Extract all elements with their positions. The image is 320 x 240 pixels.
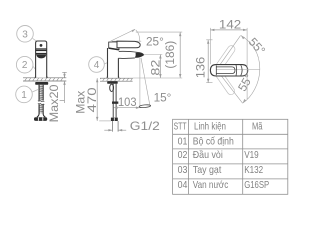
svg-text:Bộ cố định: Bộ cố định xyxy=(193,135,234,147)
ghost lever rotated down 55deg xyxy=(215,70,236,96)
wedge dark bottom edge xyxy=(109,48,119,50)
body/lever boundary line xyxy=(215,65,217,75)
body base flare (side) xyxy=(107,76,119,78)
(186) dimension line xyxy=(179,32,181,78)
handle dark band xyxy=(36,49,47,51)
svg-text:136: 136 xyxy=(193,56,207,78)
leader line circle 3 xyxy=(33,38,37,41)
svg-text:04: 04 xyxy=(178,180,188,191)
svg-text:Linh kiện: Linh kiện xyxy=(194,122,226,133)
countertop deck (side view) with hatch xyxy=(98,76,134,82)
table row lines xyxy=(173,134,288,179)
faucet top view stadium body xyxy=(210,65,247,76)
G1/2 arrows xyxy=(104,129,126,131)
svg-text:15°: 15° xyxy=(154,93,172,105)
136 extension ticks xyxy=(206,40,212,83)
Max20 dimension line with arrows xyxy=(60,72,67,103)
svg-text:STT: STT xyxy=(174,122,187,133)
svg-text:Mã: Mã xyxy=(252,122,263,133)
handle lower edge line xyxy=(36,47,47,49)
82 extension line xyxy=(144,54,162,56)
mounting nut under deck (side) xyxy=(107,81,118,83)
threaded stud xyxy=(39,85,43,114)
lever inner outline (top view) xyxy=(216,67,235,74)
svg-text:1: 1 xyxy=(21,90,27,101)
svg-text:03: 03 xyxy=(178,165,188,176)
55 deg arc xyxy=(241,36,260,104)
142 right extension line xyxy=(246,28,248,99)
svg-text:02: 02 xyxy=(178,150,188,161)
callout circle 3 xyxy=(17,26,34,43)
leader line circle 2 xyxy=(33,66,36,69)
svg-text:103: 103 xyxy=(118,97,137,109)
water stream vertical line xyxy=(139,58,141,106)
svg-text:V19: V19 xyxy=(244,150,259,161)
Max 470 dimension line xyxy=(96,78,98,121)
svg-text:Van nước: Van nước xyxy=(193,180,229,191)
25 deg angled line with arrow xyxy=(111,29,136,41)
55 deg lower ray xyxy=(217,70,243,104)
table column lines xyxy=(189,119,243,194)
spout upper dark band (front) xyxy=(36,53,46,55)
leader line circle 4 xyxy=(104,63,107,64)
ghost lever rotated up 55deg xyxy=(215,44,236,70)
svg-text:4: 4 xyxy=(94,60,100,71)
82 dimension line xyxy=(159,55,161,79)
142 left extension line xyxy=(209,28,211,64)
deck extension line xyxy=(133,77,183,79)
svg-text:82: 82 xyxy=(149,59,163,75)
stud bottom flare xyxy=(37,113,45,117)
water stream 15 deg line xyxy=(141,58,150,105)
svg-text:2: 2 xyxy=(22,60,28,71)
handle pivot dot (front view) xyxy=(40,44,43,47)
table outer border xyxy=(173,119,288,194)
stream ellipse xyxy=(139,104,151,108)
spout dark dome (front) xyxy=(36,55,46,59)
hose end extension line xyxy=(99,120,111,122)
centerline through top view xyxy=(217,69,260,71)
svg-text:Đầu vòi: Đầu vòi xyxy=(193,149,223,161)
handle cartridge wedge xyxy=(109,42,119,50)
callout circle 1 xyxy=(16,86,33,103)
55 deg upper ray xyxy=(217,35,241,69)
svg-text:25°: 25° xyxy=(146,37,164,49)
spout (side view) xyxy=(118,51,143,58)
136 dimension line xyxy=(207,40,209,83)
svg-text:Max20: Max20 xyxy=(47,84,61,122)
svg-text:G1/2: G1/2 xyxy=(130,119,160,133)
svg-text:Tay gạt: Tay gạt xyxy=(193,165,222,176)
103 dimension line xyxy=(114,107,140,109)
svg-text:G16SP: G16SP xyxy=(244,180,269,191)
svg-text:3: 3 xyxy=(22,29,28,40)
faucet body (side view) xyxy=(108,48,119,78)
callout circle 4 xyxy=(89,57,105,73)
svg-text:01: 01 xyxy=(178,136,188,147)
bottom coupling nut xyxy=(34,117,47,121)
supply hose xyxy=(113,84,116,118)
leader line circle 1 xyxy=(32,90,38,93)
callout circle 2 xyxy=(16,56,33,73)
25 deg reference line xyxy=(112,40,141,42)
pipe break symbol xyxy=(38,101,45,105)
svg-text:(186): (186) xyxy=(165,41,177,69)
svg-text:K132: K132 xyxy=(244,165,263,176)
svg-text:470: 470 xyxy=(85,87,99,113)
142 dimension line xyxy=(210,29,247,31)
25 deg arc xyxy=(136,30,140,41)
handle lever (side view) xyxy=(117,41,140,48)
countertop deck (front view) with hatch xyxy=(20,76,68,82)
second hose loop xyxy=(110,84,114,91)
mounting nut under deck (front) xyxy=(35,82,48,85)
lever/spout boundary line (top view) xyxy=(235,65,238,76)
top extension line (186) xyxy=(136,31,182,33)
G1/2 thread nipple xyxy=(112,121,118,132)
hose ferrule xyxy=(112,102,118,104)
body base flare xyxy=(35,76,48,78)
faucet body front view xyxy=(36,41,47,78)
spout tip inner arc xyxy=(241,65,242,76)
svg-text:142: 142 xyxy=(219,17,242,31)
hose end nut xyxy=(111,118,118,121)
